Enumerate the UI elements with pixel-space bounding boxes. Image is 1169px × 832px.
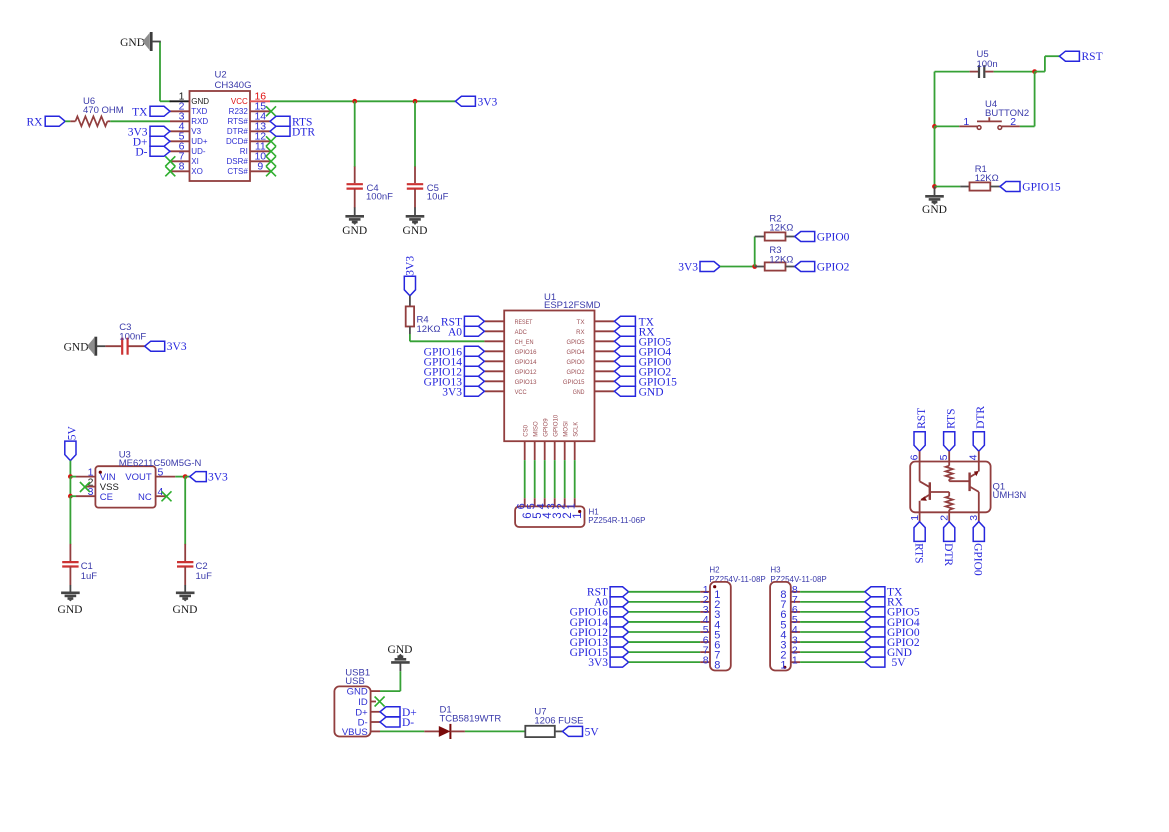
svg-text:RX: RX [27,116,44,128]
svg-text:1uF: 1uF [196,571,213,582]
port GPIO2 at H3 [865,637,885,647]
port DTR below Q1 pin 2 (rotated) [944,522,955,542]
port GPIO0 at H3 [865,627,885,637]
H1 pin1 marker dot [578,510,581,513]
svg-text:ESP12FSMD: ESP12FSMD [544,300,601,311]
svg-text:8: 8 [179,161,185,173]
U1 right pin GPIO15 [595,380,615,382]
U2 pin 2 TXD [170,110,190,112]
svg-text:3: 3 [968,515,980,521]
svg-text:GPIO9: GPIO9 [543,418,550,437]
svg-text:D-: D- [135,146,147,158]
wire GPIO15 to H2 pin 7 [629,651,701,653]
U1 right pin RX [595,330,615,332]
svg-text:GND: GND [403,225,428,237]
capacitor C4 100nF [354,167,356,184]
svg-text:GPIO0: GPIO0 [817,232,850,244]
wire H3 pin 5 to GPIO4 [800,621,865,623]
H3 pin 8 [791,591,800,593]
U1 right pin GND [595,390,615,392]
svg-text:RTS: RTS [946,408,958,428]
svg-text:3V3: 3V3 [167,341,187,353]
wire D1 to fuse U7 [465,730,525,732]
wire U5 right to junction [994,71,1035,73]
Q1 lower bias resistor [948,492,950,496]
U1 bottom pin CS0 [524,441,526,460]
svg-text:GND: GND [58,604,83,616]
port GPIO0 [795,232,815,242]
svg-text:MOSI: MOSI [563,421,570,437]
svg-text:1: 1 [963,116,969,128]
svg-text:CS0: CS0 [523,424,530,436]
port 3V3 at VOUT [190,472,207,482]
U1 left pin CH_EN [484,340,504,342]
port TX at H3 [865,587,885,597]
svg-text:12KΩ: 12KΩ [769,223,793,234]
svg-text:NC: NC [138,492,152,503]
svg-text:2: 2 [939,515,951,521]
H3 pin 2 [791,651,800,653]
svg-text:H2: H2 [709,566,720,575]
Q1 top pin 4 [978,451,980,461]
svg-text:DTR: DTR [942,543,954,566]
capacitor C3 100nF [105,345,121,347]
capacitor C5 10uF [414,167,416,184]
svg-text:8: 8 [714,659,720,671]
U2 pin 7 XI [170,160,190,162]
U1 bottom pin MISO [534,441,536,460]
wire GPIO14 to H2 pin 4 [629,621,701,623]
svg-text:1: 1 [566,503,578,509]
wire GPIO12 to H2 pin 5 [629,631,701,633]
H2 pin 2 [700,601,710,603]
U1 right pin GPIO5 [595,340,615,342]
svg-text:CTS#: CTS# [227,167,248,176]
wire USB GND up to ground [380,690,400,692]
port GPIO4 at H3 [865,617,885,627]
wire U1 SCLK to H1 pin 1 [574,460,576,498]
svg-text:3V3: 3V3 [678,262,698,274]
svg-text:GPIO15: GPIO15 [1022,182,1061,194]
U1 left pin ADC [484,330,504,332]
resistor R3 12KOhm [755,266,765,268]
wire H3 pin 1 to 5V [800,661,865,663]
wire left branch down to GND node [934,126,936,186]
H3 pin 4 [791,631,800,633]
port GPIO5 at H3 [865,607,885,617]
port GPIO13 at H2 pin 6 [610,637,629,647]
port D+ at U2 pin5 [150,136,170,146]
wire U6 to U2 pin3 RXD [110,120,170,122]
U3 pin 4 NC [156,495,166,497]
junction at C5 [413,99,418,104]
svg-text:1: 1 [780,659,786,671]
port A0 at H2 pin 2 [610,597,629,607]
port 3V3 at U1 VCC [464,386,484,396]
junction at C4 [352,99,357,104]
H2 pin 4 [700,621,710,623]
svg-text:3V3: 3V3 [208,472,228,484]
svg-text:RTS#: RTS# [227,117,248,126]
svg-text:GND: GND [922,204,947,216]
svg-text:CH_EN: CH_EN [515,339,534,346]
wire fuse to 5V port [555,730,563,732]
U2 pin 6 UD- [170,150,190,152]
port RX at H3 [865,597,885,607]
H2 pin 7 [700,651,710,653]
IC U3 ME6211C50M5G-N body [95,466,155,507]
wire U5 left to rail [935,71,970,73]
svg-text:1206 FUSE: 1206 FUSE [534,716,583,727]
USB1 pin D- [371,721,380,723]
USB1 pin ID [371,701,376,703]
wire U1 MISO to H1 pin 5 [534,460,536,498]
svg-text:GPIO12: GPIO12 [515,369,537,376]
wire VOUT branch down to C2 [184,477,186,545]
H2 pin 1 [700,591,710,593]
port RTS below Q1 pin 1 (rotated) [914,522,925,542]
U1 bottom pin GPIO10 [554,441,556,460]
wire H3 pin 2 to GND [800,651,865,653]
U1 left pin GPIO14 [484,360,504,362]
wire C4 to rail [354,101,356,167]
no-connect X on U2 pins 7,8 [165,156,175,166]
svg-text:8: 8 [703,654,709,666]
H3 pin1 marker dot [783,666,786,669]
svg-text:12KΩ: 12KΩ [769,254,793,265]
svg-text:100nF: 100nF [366,192,393,203]
U1 left pin GPIO12 [484,370,504,372]
svg-text:CH340G: CH340G [215,80,252,91]
U2 pin 8 XO [170,170,190,172]
port GPIO16 at H2 pin 3 [610,607,629,617]
svg-text:H3: H3 [770,566,781,575]
wire junction up to R2 [754,237,756,267]
port GPIO5 at U1 right [614,336,635,346]
port RST at H2 pin 1 [610,587,629,597]
Q1 top pin 6 [919,451,921,461]
wire 3V3 to H2 pin 8 [629,661,701,663]
svg-text:100n: 100n [977,59,998,70]
svg-text:5V: 5V [66,426,78,441]
port 3V3 at C3 [145,341,165,351]
svg-text:TCB5819WTR: TCB5819WTR [440,714,502,725]
svg-text:RST: RST [1082,51,1103,63]
svg-text:GND: GND [639,386,664,398]
pushbutton U4 BUTTON2 [959,125,977,127]
svg-text:GND: GND [573,389,585,396]
svg-text:BUTTON2: BUTTON2 [985,108,1029,119]
U1 right pin GPIO4 [595,350,615,352]
svg-text:VCC: VCC [515,389,527,396]
U1 right pin TX [595,320,615,322]
wire H3 pin 6 to GPIO5 [800,611,865,613]
svg-text:GND: GND [120,37,145,49]
svg-text:RST: RST [916,408,928,429]
port GPIO2 [795,262,815,272]
U2 pin 5 UD+ [170,140,190,142]
capacitor C2 1uF [184,544,186,561]
junction R2/R3 [752,264,757,269]
U1 left pin VCC [484,390,504,392]
port GPIO16 at U1 GPIO16 [464,346,484,356]
ground GND top right [934,187,936,197]
ground GND below C4 [354,207,356,216]
ground GND above USB (inverted) [399,662,401,671]
resistor R1 12KOhm [960,186,969,188]
U1 left pin GPIO16 [484,350,504,352]
no-connect X on VSS [80,482,90,492]
svg-text:6: 6 [908,454,920,460]
port TX at U1 right [614,316,635,326]
U2 pin 15 R232 [250,110,270,112]
Q1 right transistor [968,473,970,492]
wire VIN junction to CE junction [69,477,71,497]
port RX [45,116,65,126]
Q1 bottom pin 1 [919,512,921,521]
svg-text:SCLK: SCLK [573,421,580,437]
svg-text:GPIO14: GPIO14 [515,359,537,366]
svg-text:GPIO0: GPIO0 [567,359,585,366]
svg-text:1: 1 [909,515,921,521]
U1 bottom pin GPIO9 [544,441,546,460]
H2 pin 5 [700,631,710,633]
svg-text:GPIO13: GPIO13 [515,379,537,386]
svg-text:3: 3 [88,486,94,498]
wire U1 CS0 to H1 pin 6 [524,460,526,498]
svg-text:GPIO10: GPIO10 [553,414,560,437]
wire R4 to U1 CH_EN [409,334,411,341]
svg-text:XI: XI [191,157,199,166]
svg-text:DSR#: DSR# [226,157,248,166]
svg-text:5: 5 [158,466,164,478]
wire 5V to VIN [69,461,71,477]
fuse U7 1206 FUSE [525,726,555,737]
svg-text:2: 2 [1010,116,1016,128]
svg-text:RXD: RXD [191,117,208,126]
svg-text:A0: A0 [448,326,462,338]
svg-text:GND: GND [388,644,413,656]
Q1 bottom pin 3 [978,512,980,521]
svg-text:1: 1 [792,654,798,666]
U3 pin 2 VSS [85,486,95,488]
junction RST node [1032,69,1037,74]
svg-text:VOUT: VOUT [125,472,152,483]
svg-text:9: 9 [257,161,263,173]
svg-text:TX: TX [132,106,148,118]
wire RX to resistor U6 [65,120,70,122]
svg-text:U2: U2 [215,69,227,80]
port A0 at U1 ADC [464,326,484,336]
wire U1 MOSI to H1 pin 2 [564,460,566,498]
port GPIO4 at U1 right [614,346,635,356]
connector H1 PZ254R-11-06P body [515,506,584,527]
IC U1 ESP12FSMD body [504,311,594,442]
svg-text:CE: CE [100,492,113,503]
port GPIO0 below Q1 pin 3 (rotated) [973,522,984,542]
svg-text:RX: RX [576,329,585,336]
port GPIO2 at U1 right [614,366,635,376]
Q1 top pin 5 [948,451,950,461]
resistor R2 12KOhm [755,236,765,238]
U2 pin 14 RTS# [250,120,270,122]
Q1 right base wire [949,480,969,482]
junction GND node [932,184,937,189]
svg-text:10uF: 10uF [427,192,449,203]
U2 pin 4 V3 [170,130,190,132]
port D- flag [380,717,400,727]
wire H3 pin 3 to GPIO2 [800,641,865,643]
IC U2 CH340G body [190,91,251,181]
svg-text:GND: GND [342,225,367,237]
H3 pin 1 [791,661,800,663]
svg-text:PZ254R-11-06P: PZ254R-11-06P [588,516,645,525]
port GND at U1 right [614,386,635,396]
diode D1 TCB5819WTR [424,730,439,732]
junction VOUT [183,474,188,479]
U3 pin 1 VIN [70,476,76,478]
svg-text:DCD#: DCD# [226,137,248,146]
svg-text:GPIO4: GPIO4 [567,349,585,356]
wire RST to H2 pin 1 [629,591,701,593]
wire VOUT to 3V3 port [185,476,190,478]
USB1 pin GND [371,690,380,692]
svg-text:RESET: RESET [515,319,533,326]
U2 pin 9 CTS# [250,170,270,172]
port D- at U2 pin6 [150,146,170,156]
connector USB1 body [334,686,370,736]
svg-text:1uF: 1uF [81,571,98,582]
port GPIO14 at H2 pin 4 [610,617,629,627]
port RTS [270,116,290,126]
svg-text:UMH3N: UMH3N [993,490,1027,501]
svg-text:DTR: DTR [975,406,987,429]
svg-text:3V3: 3V3 [478,96,498,108]
wire VIN branch down to C1 [69,496,71,544]
svg-text:UD+: UD+ [191,137,208,146]
ground GND below C2 [184,585,186,593]
wire H3 pin 7 to RX [800,601,865,603]
U3 pin1 marker dot [99,471,102,474]
wire VCC rail 3V3 from U2 pin16 [270,100,455,102]
svg-text:4: 4 [968,454,980,460]
U1 left pin GPIO13 [484,380,504,382]
port 5V at H3 [865,657,885,667]
svg-text:3V3: 3V3 [442,386,462,398]
port GPIO12 at U1 GPIO12 [464,366,484,376]
svg-text:GPIO0: GPIO0 [972,543,984,576]
svg-text:UD-: UD- [191,147,206,156]
svg-text:TX: TX [577,319,586,326]
svg-text:GPIO2: GPIO2 [567,369,585,376]
svg-text:GND: GND [64,342,89,354]
port GPIO15 at H2 pin 7 [610,647,629,657]
U3 pin 3 CE [70,495,76,497]
svg-text:3V3: 3V3 [404,256,416,276]
svg-text:DTR: DTR [292,126,315,138]
svg-text:GND: GND [347,687,368,698]
U2 pin 16 VCC [250,100,270,102]
junction button pin1 [932,124,937,129]
wire button pin2 up to RST node [1020,125,1035,127]
Q1 left transistor [919,462,921,482]
wire junction to RST port [1035,71,1045,73]
wire left branch down to button [934,72,936,127]
svg-text:GND: GND [173,604,198,616]
svg-text:D-: D- [402,717,414,729]
U2 pin 3 RXD [170,120,190,122]
wire U1 GPIO9 to H1 pin 4 [544,460,546,498]
svg-text:USB: USB [345,676,365,687]
USB1 pin VBUS [371,730,380,732]
svg-text:3V3: 3V3 [588,657,608,669]
svg-text:5V: 5V [585,726,600,738]
H2 pin 6 [700,641,710,643]
svg-text:GPIO5: GPIO5 [567,339,585,346]
svg-text:R232: R232 [229,107,249,116]
connector H3 body [770,582,791,671]
svg-text:12KΩ: 12KΩ [975,173,999,184]
svg-text:TXD: TXD [191,107,207,116]
svg-text:12KΩ: 12KΩ [417,324,441,335]
port RX at U1 right [614,326,635,336]
port 3V3 mid right [700,262,720,272]
port GPIO12 at H2 pin 5 [610,627,629,637]
wire A0 to H2 pin 2 [629,601,701,603]
svg-text:5V: 5V [892,657,907,669]
svg-text:RTS: RTS [912,543,924,563]
port GPIO15 at U1 right [614,376,635,386]
wire GPIO13 to H2 pin 6 [629,641,701,643]
wire junction to R1 [935,186,961,188]
no-connect X on ID [375,697,385,707]
port D+ flag [380,707,400,717]
port TX [150,106,170,116]
Q1 upper bias resistor [948,462,950,466]
svg-text:GPIO15: GPIO15 [563,379,585,386]
U1 left pin RESET [484,320,504,322]
transistor array Q1 UMH3N body [910,462,990,513]
U3 pin 5 VOUT [156,476,176,478]
U1 right pin GPIO2 [595,370,615,372]
wire VBUS to D1 [380,730,424,732]
wire C5 to rail [414,101,416,167]
U2 pin 12 DCD# [250,140,270,142]
resistor R4 12KOhm [409,296,411,307]
svg-text:5: 5 [938,454,950,460]
H2 pin1 marker dot [713,585,716,588]
H3 pin 6 [791,611,800,613]
U2 pin 13 DTR# [250,130,270,132]
svg-text:V3: V3 [191,127,201,136]
port GPIO0 at U1 right [614,356,635,366]
U1 bottom pin SCLK [574,441,576,460]
Q1 bottom pin 2 [948,512,950,521]
port 3V3 top [455,96,475,106]
port GND at H3 [865,647,885,657]
svg-text:GPIO2: GPIO2 [817,262,850,274]
wire GND to U2 pin1 (net GND) [159,42,161,102]
port RST top right [1059,51,1079,61]
U1 bottom pin MOSI [564,441,566,460]
no-connect X on U2 pins 15,12,11,10,9 [266,106,276,116]
wire GPIO16 to H2 pin 3 [629,611,701,613]
svg-text:RI: RI [240,147,248,156]
H3 pin 7 [791,601,800,603]
port GPIO15 [1000,182,1020,192]
svg-text:VBUS: VBUS [342,727,368,738]
svg-text:470 OHM: 470 OHM [83,105,124,116]
